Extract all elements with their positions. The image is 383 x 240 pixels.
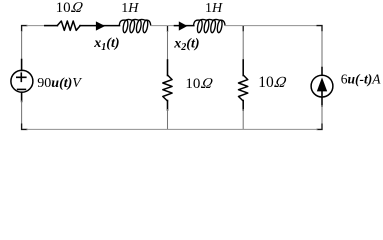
wire black lead below R3 — [242, 101, 244, 111]
current arrow x2(t) — [179, 21, 188, 30]
current source arrow head — [317, 77, 327, 91]
wire gray left vertical upper — [21, 31, 23, 61]
voltage source V1 circle — [11, 70, 33, 92]
inductor L2 1H — [194, 19, 225, 33]
node A tick — [167, 26, 169, 32]
wire black stub below I source — [321, 97, 323, 106]
current source I1 circle — [311, 75, 333, 97]
svg-text:x2(t): x2(t) — [173, 36, 199, 53]
wire black R1 to L1 (through arrow) — [80, 25, 120, 27]
wire top-left corner elbow — [22, 26, 28, 32]
wire black lead into R2 — [167, 60, 169, 76]
svg-text:6u(-t)A: 6u(-t)A — [341, 71, 382, 86]
svg-text:1H: 1H — [121, 1, 139, 16]
wire black stub into V source top — [21, 60, 23, 71]
current source arrow shaft — [321, 91, 323, 97]
svg-text:1H: 1H — [205, 1, 223, 16]
wire top-right corner elbow — [317, 26, 323, 32]
wire black lead into R1 — [45, 25, 58, 27]
inductor L1 1H — [119, 19, 150, 33]
wire gray node B down — [242, 31, 244, 61]
svg-text:x1(t): x1(t) — [93, 36, 119, 53]
wire black stub below V source — [21, 92, 23, 101]
resistor R1 10ohm (top) — [57, 21, 80, 30]
svg-text:10: 10 — [56, 0, 71, 16]
wire gray right vertical lower — [321, 105, 323, 125]
wire black lead into R3 — [242, 60, 244, 76]
wire gray L1 to node A to arrow2 lead — [151, 25, 176, 27]
wire gray L2 to top-right corner — [225, 25, 317, 27]
wire bottom gray rail — [27, 128, 318, 130]
svg-text:10: 10 — [258, 74, 274, 91]
wire gray right vertical upper — [321, 31, 323, 69]
wire gray R3 to bottom — [242, 109, 244, 129]
wire top gray: corner to R1 lead — [27, 25, 46, 27]
resistor R3 10ohm (vertical) — [239, 75, 248, 101]
voltage source plus sign — [16, 72, 27, 82]
wire gray node A down — [167, 31, 169, 61]
current arrow x1(t) — [96, 21, 105, 30]
wire bottom-left corner elbow — [22, 124, 28, 130]
voltage source minus sign — [17, 88, 26, 90]
wire bottom-right corner elbow — [317, 124, 323, 130]
wire black lead through arrow2 into L2 — [175, 25, 194, 27]
resistor R2 10ohm (vertical) — [163, 75, 172, 101]
wire black stub into I source top — [321, 68, 323, 76]
svg-text:10: 10 — [185, 76, 200, 92]
wire black lead below R2 — [167, 101, 169, 111]
wire gray left vertical lower — [21, 101, 23, 125]
wire gray R2 to bottom — [167, 109, 169, 129]
svg-text:90u(t)V: 90u(t)V — [37, 76, 82, 91]
node B tick — [242, 26, 244, 32]
